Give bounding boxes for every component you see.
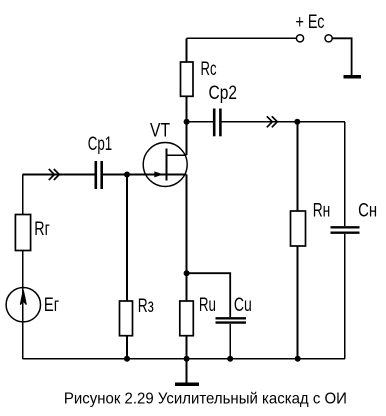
terminal circle right (+Ec) <box>325 35 332 42</box>
svg-text:Rг: Rг <box>34 219 50 240</box>
wire output node down to Rн <box>297 122 299 212</box>
svg-text:Ср2: Ср2 <box>209 83 238 104</box>
wire gate (Cp1 to transistor channel) <box>103 174 187 176</box>
node dot output <box>294 119 300 125</box>
source Eг circle <box>6 288 40 322</box>
resistor Ru <box>180 301 194 336</box>
svg-text:Rн: Rн <box>313 200 331 221</box>
node dot Cu rail <box>227 356 233 362</box>
capacitor Cp1 <box>95 161 98 189</box>
wire Cp2 to output node <box>222 121 345 123</box>
wire to Cu <box>187 273 231 317</box>
terminal circle left (+Ec) <box>296 35 303 42</box>
wire down to Cн <box>344 122 346 226</box>
svg-text:Ег: Ег <box>44 295 59 316</box>
wire Rз bottom to rail <box>126 336 128 359</box>
svg-text:+ Ес: + Ес <box>296 12 325 33</box>
node dot Rз rail <box>124 356 130 362</box>
wire Rc bottom to drain <box>186 96 188 155</box>
resistor Rз <box>120 301 133 336</box>
wire top supply rail <box>187 37 297 39</box>
wire source down to Ru node <box>186 175 188 302</box>
svg-text:Ru: Ru <box>199 295 216 316</box>
wire Rг bottom to Eг <box>22 251 24 360</box>
wire from terminal to supply ground <box>332 38 351 76</box>
node dot drain/output <box>184 119 190 125</box>
resistor Rc <box>181 62 194 96</box>
wire Ru bottom to rail <box>186 336 188 359</box>
transistor VT drain lead <box>167 154 187 156</box>
capacitor Cu <box>216 317 247 319</box>
wire input <box>22 174 95 176</box>
svg-text:Рисунок 2.29 Усилительный каск: Рисунок 2.29 Усилительный каскад с ОИ <box>64 391 347 408</box>
Eг arrow <box>20 290 26 304</box>
transistor VT channel <box>166 149 168 181</box>
wire Cн bottom to rail <box>344 234 346 359</box>
capacitor Cн <box>331 226 360 228</box>
gate arrowhead <box>154 171 163 177</box>
node dot Rн rail <box>295 356 301 362</box>
svg-text:Ср1: Ср1 <box>88 134 113 155</box>
wire Rн bottom to rail <box>297 246 299 359</box>
svg-text:Rз: Rз <box>138 296 154 317</box>
resistor Rн <box>291 211 306 246</box>
wire Cu bottom to rail <box>229 324 231 359</box>
svg-text:Сн: Сн <box>358 200 377 221</box>
wire bottom rail <box>22 358 345 360</box>
node dot source/Ru/Cu <box>184 270 190 276</box>
node dot Ru rail <box>184 356 190 362</box>
ground (main) <box>175 383 199 386</box>
arrow chevron input <box>49 169 55 180</box>
wire Rз branch <box>126 175 128 302</box>
ground (supply) <box>344 75 362 78</box>
wire drain top <box>186 38 188 62</box>
transistor VT circle <box>143 143 187 187</box>
svg-text:Cu: Cu <box>234 295 252 316</box>
wire ground stub <box>186 359 188 383</box>
resistor Rг <box>15 215 30 251</box>
svg-text:VT: VT <box>150 120 170 141</box>
arrow chevron output <box>267 116 273 127</box>
capacitor Cp2 <box>213 109 216 137</box>
svg-text:Rc: Rc <box>201 59 217 80</box>
wire output to Cp2 <box>187 121 213 123</box>
wire left vertical input <box>22 175 24 216</box>
node dot gate/Rз <box>124 172 130 178</box>
